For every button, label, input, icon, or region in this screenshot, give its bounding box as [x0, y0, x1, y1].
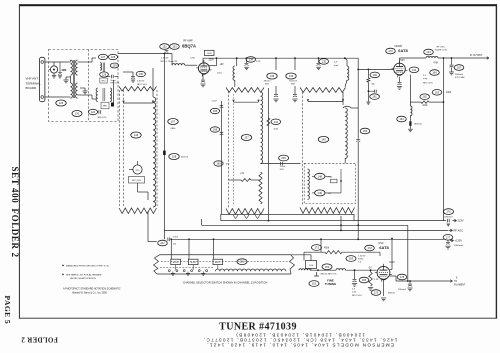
part label 132: [160, 44, 170, 50]
capacitor C138: [275, 86, 277, 94]
capacitor C129 coupling: [106, 76, 110, 78]
svg-text:134: 134: [249, 57, 254, 61]
part label 164: [397, 116, 407, 122]
svg-text:178: 178: [400, 275, 405, 279]
box fine tuning slug: [306, 261, 317, 269]
wire secondary lower out: [78, 94, 93, 96]
svg-text:mmf: mmf: [352, 291, 357, 293]
svg-text:700V: 700V: [399, 59, 405, 62]
svg-text:164: 164: [399, 117, 404, 121]
op point box 1000: [205, 50, 215, 55]
svg-text:NPO: NPO: [101, 81, 106, 83]
wire S2 bottom tap: [229, 179, 242, 181]
svg-text:176: 176: [446, 210, 451, 214]
svg-text:155: 155: [363, 129, 368, 133]
dashed box inner partition: [88, 50, 90, 122]
svg-text:47M: 47M: [433, 62, 438, 64]
part label 157: [168, 119, 178, 125]
part label 244: [271, 119, 281, 125]
switch contact grounds: [171, 273, 175, 275]
svg-text:152: 152: [312, 282, 317, 286]
heater dropper line: [409, 75, 411, 106]
wire antenna lower lead: [45, 96, 63, 98]
svg-text:SEE PARTS LIST FOR ALTERNATE: SEE PARTS LIST FOR ALTERNATE: [66, 274, 102, 277]
svg-text:FILAMENT: FILAMENT: [454, 284, 466, 287]
coil strip S2 inner dashed: [233, 94, 235, 206]
RF plate coil: [236, 57, 238, 59]
part label 163: [432, 90, 442, 96]
part label 149: [315, 190, 325, 196]
svg-text:NPO 10%: NPO 10%: [132, 180, 141, 182]
svg-text:136: 136: [139, 72, 144, 76]
svg-text:PLATE COIL: PLATE COIL: [435, 48, 448, 51]
part label 247: [158, 240, 168, 246]
svg-text:170: 170: [388, 49, 393, 53]
part label 173: [312, 245, 322, 251]
svg-text:40M: 40M: [61, 68, 66, 72]
part label 153: [322, 264, 332, 270]
svg-text:10%: 10%: [280, 169, 284, 171]
svg-text:180mmf: 180mmf: [398, 289, 406, 291]
svg-text:SET 400: SET 400: [10, 167, 20, 204]
svg-text:247: 247: [160, 241, 165, 245]
wire heater line: [390, 275, 396, 277]
wire 100k box drop: [303, 252, 305, 260]
part label 126: [100, 72, 109, 77]
wire drop S3 coil: [340, 216, 342, 230]
svg-text:RF AMP: RF AMP: [183, 39, 193, 42]
wire osc feedback line: [304, 251, 325, 253]
wire box to RF amp grid: [118, 53, 172, 55]
wire grid column: [113, 80, 115, 100]
border frame left: [18, 4, 20, 318]
svg-text:TUS: TUS: [309, 265, 314, 267]
svg-text:Howard W. Sams & Co., Inc. 195: Howard W. Sams & Co., Inc. 1956: [72, 292, 108, 295]
wire drop to C138: [275, 58, 277, 70]
capacitor C139: [294, 86, 296, 94]
ground balun center: [63, 80, 68, 83]
svg-text:RF OSC.: RF OSC.: [437, 46, 446, 48]
wire grid return 6AT8: [358, 68, 394, 70]
coil strip S1 torn top edge: [119, 87, 157, 92]
switch band torn left edge: [154, 255, 160, 274]
osc grid coil: [336, 269, 346, 271]
svg-text:680mmf: 680mmf: [445, 216, 453, 218]
coil strip S1 right dashed: [156, 90, 158, 206]
resistor R244: [267, 118, 270, 126]
svg-text:450k: 450k: [324, 248, 330, 250]
capacitor C168: [220, 133, 224, 135]
part label 143: [424, 49, 434, 55]
svg-text:153: 153: [325, 265, 330, 269]
svg-text:560mmf: 560mmf: [455, 74, 463, 76]
svg-text:-2V: -2V: [368, 267, 372, 270]
part label 251: [237, 259, 247, 265]
balun transformer T1 secondary upper: [76, 60, 78, 75]
svg-text:NPO 10%: NPO 10%: [352, 295, 362, 297]
wire balun top: [68, 61, 70, 63]
coil strip S3 top hook: [343, 106, 351, 108]
part label 161: [370, 94, 380, 100]
svg-text:88mmf NPO 5%: 88mmf NPO 5%: [321, 273, 337, 275]
svg-text:166: 166: [432, 71, 437, 75]
part label 138: [267, 73, 277, 79]
svg-text:TERMINAL: TERMINAL: [26, 81, 42, 85]
svg-text:180mmf: 180mmf: [414, 124, 422, 126]
trimmer capacitor S1: [133, 165, 142, 174]
svg-text:NPO 10%: NPO 10%: [423, 83, 433, 85]
svg-text:FOLDER 2: FOLDER 2: [21, 336, 58, 344]
label +135V: [450, 239, 454, 242]
svg-text:158: 158: [172, 155, 177, 159]
coil strip S2 left edge dashed: [228, 91, 230, 208]
svg-text:1.5mmf: 1.5mmf: [358, 256, 366, 258]
part label 169: [214, 161, 223, 166]
wire IF output line: [438, 57, 487, 59]
label VHF ANT TERMINAL BOARD: [26, 77, 42, 91]
svg-text:N750: N750: [358, 259, 364, 261]
svg-text:127: 127: [101, 55, 106, 59]
fine tuning trimmer: [314, 272, 319, 276]
wire bus line 3 (RF AGC): [164, 229, 448, 231]
junction plate bus: [443, 57, 445, 59]
svg-text:173: 173: [314, 246, 319, 250]
svg-text:RF AGC: RF AGC: [454, 228, 464, 232]
coil strip S1 torn bottom edge: [119, 208, 157, 214]
wire interstrip link: [261, 163, 301, 165]
svg-text:124: 124: [91, 110, 96, 114]
svg-text:205: 205: [362, 278, 367, 282]
balun transformer T1 primary upper: [71, 60, 73, 75]
svg-text:CHANNEL SELECTOR SWITCH SHOWN: CHANNEL SELECTOR SWITCH SHOWN IN CHANNEL…: [183, 281, 268, 285]
spark gap symbol: [50, 66, 57, 73]
part label 152: [309, 281, 319, 287]
part label 158: [169, 154, 179, 160]
switch wafer coil: [216, 269, 286, 271]
wire osc plate to bus: [390, 269, 392, 271]
svg-text:125: 125: [59, 101, 64, 105]
coil strip S3 right lead: [342, 92, 344, 105]
balun transformer T1 secondary lower: [76, 83, 78, 98]
switch band top edge: [160, 254, 291, 256]
part label 124: [88, 109, 97, 114]
part label 140: [318, 136, 328, 142]
coil strip S3 winding: [345, 108, 347, 158]
wire screen drop: [442, 58, 444, 221]
part label 142: [409, 67, 419, 73]
wire S3 tuning tap: [308, 101, 343, 103]
svg-text:IF OUTPUT: IF OUTPUT: [470, 54, 483, 57]
wire AGC column x166: [163, 54, 165, 231]
wire band to fine tuning: [291, 254, 311, 256]
svg-text:162: 162: [423, 95, 428, 99]
switch contact circles: [168, 270, 170, 272]
svg-text:157: 157: [171, 120, 176, 124]
svg-text:149: 149: [318, 191, 323, 195]
svg-text:167: 167: [457, 66, 462, 70]
svg-text:137: 137: [244, 136, 249, 140]
ground filter: [82, 91, 87, 94]
svg-text:142: 142: [412, 68, 417, 72]
svg-text:165: 165: [213, 109, 218, 113]
feedthrough capacitor C176: [447, 219, 449, 223]
part label 134: [246, 57, 256, 63]
wire bus4 to osc feedback: [320, 239, 322, 252]
svg-text:143: 143: [426, 50, 431, 54]
capacitor C206: [354, 270, 356, 279]
dashed RF input shield box: [49, 50, 119, 122]
resistor R160: [367, 69, 369, 78]
junction dot at C135: [318, 57, 320, 59]
ground R160: [367, 98, 369, 102]
svg-text:2.2K: 2.2K: [374, 279, 379, 281]
svg-text:177: 177: [446, 235, 451, 239]
svg-text:223V: 223V: [458, 219, 464, 223]
part label 146: [131, 132, 141, 138]
svg-text:138: 138: [270, 74, 275, 78]
part label 148: [315, 173, 325, 179]
svg-text:251: 251: [240, 260, 245, 264]
svg-text:139: 139: [289, 74, 294, 78]
part label 136: [136, 71, 145, 76]
part label 130: [72, 111, 82, 117]
part label 133: [170, 44, 180, 50]
svg-text:1.5mf: 1.5mf: [173, 237, 179, 239]
wire band feed 3: [213, 239, 215, 259]
switch band bottom edge: [157, 273, 291, 275]
wire drop S1: [147, 211, 149, 242]
label 223V: [453, 219, 457, 222]
svg-text:+135V: +135V: [455, 239, 463, 243]
svg-text:6BQ7A: 6BQ7A: [182, 43, 196, 48]
coil strip S2 torn bottom edge: [226, 209, 264, 215]
coil strip S3 torn bottom edge: [300, 208, 355, 214]
capacitor C247: [168, 238, 170, 242]
coil strip S1 inner dashed: [123, 90, 125, 206]
interstage transformer left coil: [96, 88, 98, 102]
svg-text:160mmf: 160mmf: [181, 157, 189, 159]
switch contact box 1: [171, 259, 181, 264]
junction blob: [111, 103, 114, 107]
svg-text:NPO 10%: NPO 10%: [137, 84, 147, 86]
capacitor C178 heater bypass: [409, 281, 411, 284]
capacitor C161: [368, 90, 374, 92]
balun transformer T1 core: [72, 60, 74, 98]
svg-text:VALUE OR APPLICATION: VALUE OR APPLICATION: [70, 277, 96, 280]
svg-text:A-J50: A-J50: [191, 261, 197, 264]
capacitor C165b: [220, 106, 224, 108]
tube V1 cathode network: [202, 74, 204, 79]
wire bus3 to C247: [163, 230, 165, 239]
label RF AGC: [449, 229, 453, 232]
capacitor C124: [99, 110, 101, 114]
svg-text:100k: 100k: [422, 105, 428, 107]
capacitor C164 blob: [409, 121, 411, 126]
svg-text:MIX: MIX: [265, 84, 269, 86]
svg-text:140: 140: [321, 137, 326, 141]
svg-text:MIX: MIX: [291, 84, 295, 86]
svg-text:VHF ANT.: VHF ANT.: [26, 77, 39, 81]
switch band inner dashed: [161, 261, 289, 263]
svg-text:179: 179: [374, 291, 379, 295]
border frame top: [19, 4, 497, 6]
svg-text:148: 148: [318, 174, 323, 178]
coil strip S3 torn top edge: [300, 88, 346, 93]
svg-text:163: 163: [435, 90, 440, 94]
label box NPO1: [100, 78, 107, 83]
label NPO 10% box S1: [129, 177, 145, 184]
VHF antenna terminal board: [40, 57, 45, 101]
svg-text:245: 245: [281, 156, 286, 160]
svg-text:203: 203: [349, 257, 354, 261]
svg-text:39mmf: 39mmf: [264, 81, 271, 83]
part label 205: [359, 277, 369, 283]
wire IF plate to coil: [399, 58, 401, 63]
coil strip S1 winding: [152, 68, 154, 97]
svg-text:A-J50: A-J50: [173, 261, 179, 264]
interstage transformer right coil: [110, 88, 112, 102]
wire bus line 4 (+135V): [172, 238, 444, 240]
wire band feed 2: [188, 239, 190, 259]
part label 155: [360, 128, 370, 134]
svg-text:1mf: 1mf: [226, 164, 230, 166]
svg-text:BOARD: BOARD: [26, 86, 38, 90]
capacitor C167 IF bypass: [451, 58, 453, 65]
svg-text:MFD: MFD: [103, 106, 108, 108]
tube V1 plate lead: [202, 58, 204, 62]
svg-text:240k: 240k: [446, 92, 452, 94]
mixer grid coil: [344, 57, 346, 59]
svg-text:470 OHM: 470 OHM: [455, 77, 465, 79]
svg-text:3300mmf: 3300mmf: [454, 245, 464, 247]
note see parts list: [62, 274, 102, 280]
svg-text:NPO 1.75mmf W: NPO 1.75mmf W: [161, 61, 178, 63]
part label 125: [56, 100, 66, 106]
svg-text:169: 169: [216, 162, 221, 166]
part label 127: [98, 54, 107, 59]
switch band torn right edge: [290, 255, 295, 274]
wire S1 trimmer lead: [137, 183, 139, 192]
svg-text:244: 244: [274, 120, 279, 124]
svg-text:132: 132: [162, 45, 167, 49]
wire secondary to filter: [78, 61, 93, 63]
svg-text:5-25: 5-25: [256, 61, 261, 63]
junction osc trimmer column: [357, 224, 359, 226]
switch contact box 3: [213, 259, 223, 264]
part label 172: [365, 245, 375, 251]
capacitor C between: [331, 179, 338, 183]
part label 177: [443, 235, 453, 241]
coil strip S3 left edge dashed: [301, 92, 303, 206]
wire bus line 1 (+223V): [354, 220, 446, 222]
svg-text:FOLDER 2: FOLDER 2: [10, 209, 20, 258]
svg-text:220V: 220V: [209, 60, 215, 62]
wire RF plate bus: [203, 57, 358, 59]
svg-text:A PHOTOFACT STANDARD NOTATION: A PHOTOFACT STANDARD NOTATION SCHEMATIC: [63, 287, 121, 290]
svg-text:135: 135: [322, 59, 327, 63]
wire S1 tap: [124, 102, 154, 104]
note measured from strip: [62, 265, 110, 268]
svg-text:126: 126: [102, 73, 107, 77]
svg-text:+9V: +9V: [219, 63, 224, 66]
part label 179: [371, 290, 381, 296]
svg-text:120400B, 120401B, 120403B, 120: 120400B, 120401B, 120403B, 120408B): [235, 333, 365, 338]
IF plate coil: [426, 57, 438, 59]
part label 128: [108, 54, 117, 59]
svg-text:3.3mmf: 3.3mmf: [137, 81, 145, 83]
part label 203: [346, 256, 356, 262]
svg-text:+1V: +1V: [240, 173, 245, 175]
grid series coil: [171, 54, 173, 66]
svg-text:146: 146: [134, 133, 139, 137]
tube V202A oscillator: [377, 266, 390, 279]
trimmer capacitor C134: [246, 57, 248, 59]
svg-text:TUNER #471039: TUNER #471039: [219, 321, 297, 332]
coil strip S1 left edge dashed: [119, 90, 121, 206]
wire osc grid line: [310, 269, 336, 271]
wire heater column x221: [221, 101, 223, 214]
switch contact box 2: [188, 259, 198, 264]
wire S2 tuning tap: [234, 101, 259, 103]
wire filament drop: [407, 225, 409, 281]
svg-text:A-J50: A-J50: [215, 261, 221, 264]
part label 135: [319, 59, 329, 65]
border frame bottom: [19, 317, 497, 319]
coil strip S2 winding: [261, 92, 263, 163]
svg-text:6AT8: 6AT8: [398, 48, 408, 53]
svg-text:NPO 10%: NPO 10%: [111, 82, 120, 84]
part label 245: [279, 155, 289, 161]
svg-text:1.5mf: 1.5mf: [280, 166, 286, 168]
svg-text:TO: TO: [454, 281, 457, 283]
part label 137: [241, 135, 251, 141]
svg-text:161: 161: [372, 95, 377, 99]
wire bus line 2 (filament): [202, 224, 408, 226]
tube V1 RF amplifier 6BQ7A: [198, 63, 209, 74]
capacitor C245: [281, 162, 283, 166]
part label 178: [397, 274, 407, 280]
svg-text:130: 130: [75, 112, 80, 116]
tube V202B IF amplifier: [394, 63, 406, 75]
capacitor C132 input coupling: [165, 50, 169, 52]
fine tuning feed coil: [299, 269, 310, 270]
trimmer oval 129: [110, 63, 118, 68]
svg-text:168: 168: [213, 128, 218, 132]
part label 167: [454, 65, 464, 71]
border frame right: [495, 4, 497, 318]
wire osc cathode: [383, 279, 385, 296]
part label 162: [420, 94, 430, 100]
coil strip S2 torn top edge: [226, 88, 264, 93]
svg-text:6AT8: 6AT8: [379, 245, 389, 250]
svg-text:172: 172: [367, 246, 372, 250]
interstage transformer core: [102, 88, 104, 101]
svg-text:129: 129: [112, 64, 117, 68]
resistor R205: [369, 272, 373, 286]
part label 170: [386, 48, 396, 54]
svg-text:160: 160: [373, 73, 378, 77]
wire sub box net: [312, 175, 315, 177]
wire antenna upper lead: [45, 61, 68, 63]
svg-text:1.5mmf: 1.5mmf: [161, 58, 169, 60]
svg-text:MFD 10%: MFD 10%: [98, 117, 107, 119]
wire drop to C139: [294, 58, 296, 70]
capacitor C136 neutralizing: [123, 71, 133, 73]
svg-text:TUNING: TUNING: [325, 282, 337, 286]
switch contact stubs: [175, 265, 177, 270]
wire osc grid line 2: [346, 269, 377, 271]
switch rear connector box: [221, 214, 354, 220]
